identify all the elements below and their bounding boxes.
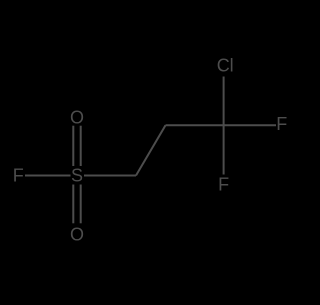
wire F-S bond	[25, 175, 71, 177]
svg-text:F: F	[13, 166, 24, 186]
svg-text:S: S	[71, 166, 83, 186]
svg-text:O: O	[70, 107, 84, 127]
wire CH2-C and C-F horizontal bond	[166, 124, 277, 126]
wire S=O bottom double bond	[73, 185, 80, 224]
svg-text:F: F	[218, 174, 229, 194]
wire CH2-CH2 diagonal bond	[136, 125, 166, 175]
svg-text:Cl: Cl	[217, 56, 234, 76]
svg-text:F: F	[276, 114, 287, 134]
wire S-CH2 bond	[84, 175, 136, 177]
svg-text:O: O	[70, 225, 84, 245]
wire S=O top double bond	[73, 126, 80, 166]
wire C-Cl and C-F vertical bond	[223, 77, 225, 175]
